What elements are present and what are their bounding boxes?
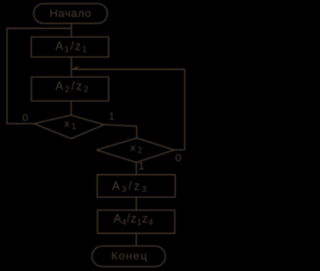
svg-text:x2: x2 <box>130 142 143 155</box>
svg-text:A1/z1: A1/z1 <box>56 41 89 54</box>
svg-text:1: 1 <box>109 111 115 123</box>
svg-text:A2/z2: A2/z2 <box>56 81 91 94</box>
svg-text:A3/z3: A3/z3 <box>112 181 149 194</box>
svg-text:1: 1 <box>138 160 144 172</box>
svg-text:x1: x1 <box>64 118 78 131</box>
svg-text:Начало: Начало <box>50 8 92 20</box>
svg-text:A4/z1z4: A4/z1z4 <box>114 214 154 227</box>
svg-text:0: 0 <box>22 112 28 124</box>
svg-text:Конец: Конец <box>111 250 148 262</box>
svg-text:0: 0 <box>175 153 181 165</box>
